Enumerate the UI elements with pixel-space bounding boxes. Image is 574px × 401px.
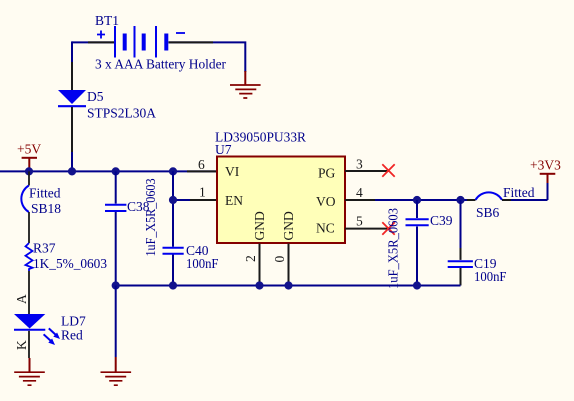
wire D5 cathode to bus [71,107,73,171]
capacitor C38 [105,178,158,256]
node K label [14,340,29,350]
svg-text:+3V3: +3V3 [530,158,561,173]
pin 5 NC [316,214,389,236]
solder bridge SB6 [476,185,535,220]
svg-text:BT1: BT1 [95,13,119,28]
svg-text:+5V: +5V [17,142,41,157]
node junction bottom C38 [112,281,120,289]
svg-text:A: A [14,294,29,304]
wire SB18 to R37 [28,212,30,243]
battery BT1 [95,13,226,72]
no-ERC marker pin 3 [382,164,394,176]
ground battery [230,85,261,98]
capacitor C19 [448,256,507,284]
svg-text:1K_5%_0603: 1K_5%_0603 [33,256,107,271]
wire C39 branch vertical [416,200,418,286]
LED LD7 [14,314,86,346]
node A label [14,294,29,304]
svg-text:3: 3 [356,157,363,172]
node junction C39 top [413,196,421,204]
no-ERC marker pin 5 [382,222,394,234]
svg-text:1: 1 [199,185,206,200]
node junction C38 bus [112,167,120,175]
svg-text:3 x AAA Battery Holder: 3 x AAA Battery Holder [95,57,226,72]
svg-text:LD7: LD7 [61,314,86,329]
svg-text:R37: R37 [33,241,56,256]
resistor R37 [26,241,108,272]
power +3V3 [530,158,561,184]
node junction +5V bus [25,167,33,175]
svg-text:GND: GND [252,211,267,240]
svg-text:EN: EN [225,193,243,208]
node junction C40 bus [169,167,177,175]
wire SB18 top stub [28,171,30,185]
wire bottom ground bus [116,285,461,287]
svg-text:4: 4 [356,185,363,200]
node junction bottom GND2 [255,281,263,289]
pin 4 VO [316,185,375,209]
pin 1 EN [199,185,243,208]
wire battery top from D5 to battery plus [72,41,114,43]
svg-text:6: 6 [198,157,205,172]
svg-text:U7: U7 [215,142,232,157]
svg-text:VI: VI [225,164,240,179]
wire VI pin black stub [187,170,217,172]
svg-text:GND: GND [281,211,296,240]
wire EN branch vertical [172,171,174,285]
svg-text:Red: Red [61,328,83,343]
svg-text:1uF_X5R_0603: 1uF_X5R_0603 [143,178,158,256]
svg-text:SB18: SB18 [31,201,61,216]
svg-text:1uF_X5R_0603: 1uF_X5R_0603 [386,208,401,289]
wire C38 branch vertical [115,171,117,285]
svg-text:Fitted: Fitted [503,185,535,200]
ground LED [14,372,45,385]
svg-text:STPS2L30A: STPS2L30A [87,106,156,121]
pin 0 GND [272,211,296,285]
svg-text:PG: PG [318,166,336,181]
wire LED cathode to ground [28,331,31,372]
svg-text:2: 2 [243,255,258,262]
node junction D5 bus [68,167,76,175]
node junction EN tap [169,196,177,204]
wire R37 to LED [28,271,30,314]
node junction bottom GND0 [284,281,292,289]
capacitor C39 [386,208,453,289]
svg-text:D5: D5 [87,89,104,104]
ground mid [101,372,132,385]
svg-text:5: 5 [356,214,363,229]
svg-text:C39: C39 [430,213,453,228]
solder bridge SB18 [21,186,61,217]
diode D5 [58,89,156,121]
pin 2 GND [243,211,267,285]
wire +5V bus to VI [0,170,217,172]
svg-text:SB6: SB6 [476,205,500,220]
svg-text:100nF: 100nF [474,269,507,284]
svg-text:NC: NC [316,221,335,236]
svg-text:VO: VO [316,194,336,209]
svg-text:100nF: 100nF [186,256,219,271]
wire VO net [375,199,476,201]
node junction bottom C40 [169,281,177,289]
wire SB6 to +3V3 [502,182,548,200]
wire battery minus to ground corner [169,42,246,85]
wire D5 anode vertical [71,41,73,90]
power +5V [17,142,41,171]
pin 6 VI [198,157,240,179]
svg-text:0: 0 [272,256,287,263]
capacitor C40 [163,243,219,271]
node junction bottom C39 [413,281,421,289]
wire C19 branch vertical [460,200,462,286]
svg-text:Fitted: Fitted [29,186,61,201]
wire mid ground drop [115,286,117,372]
wire EN to pin1 [173,199,217,201]
svg-text:K: K [14,340,29,350]
node junction C19 top [456,196,464,204]
pin 3 PG [318,157,389,181]
op-amp U7 body [215,130,345,244]
